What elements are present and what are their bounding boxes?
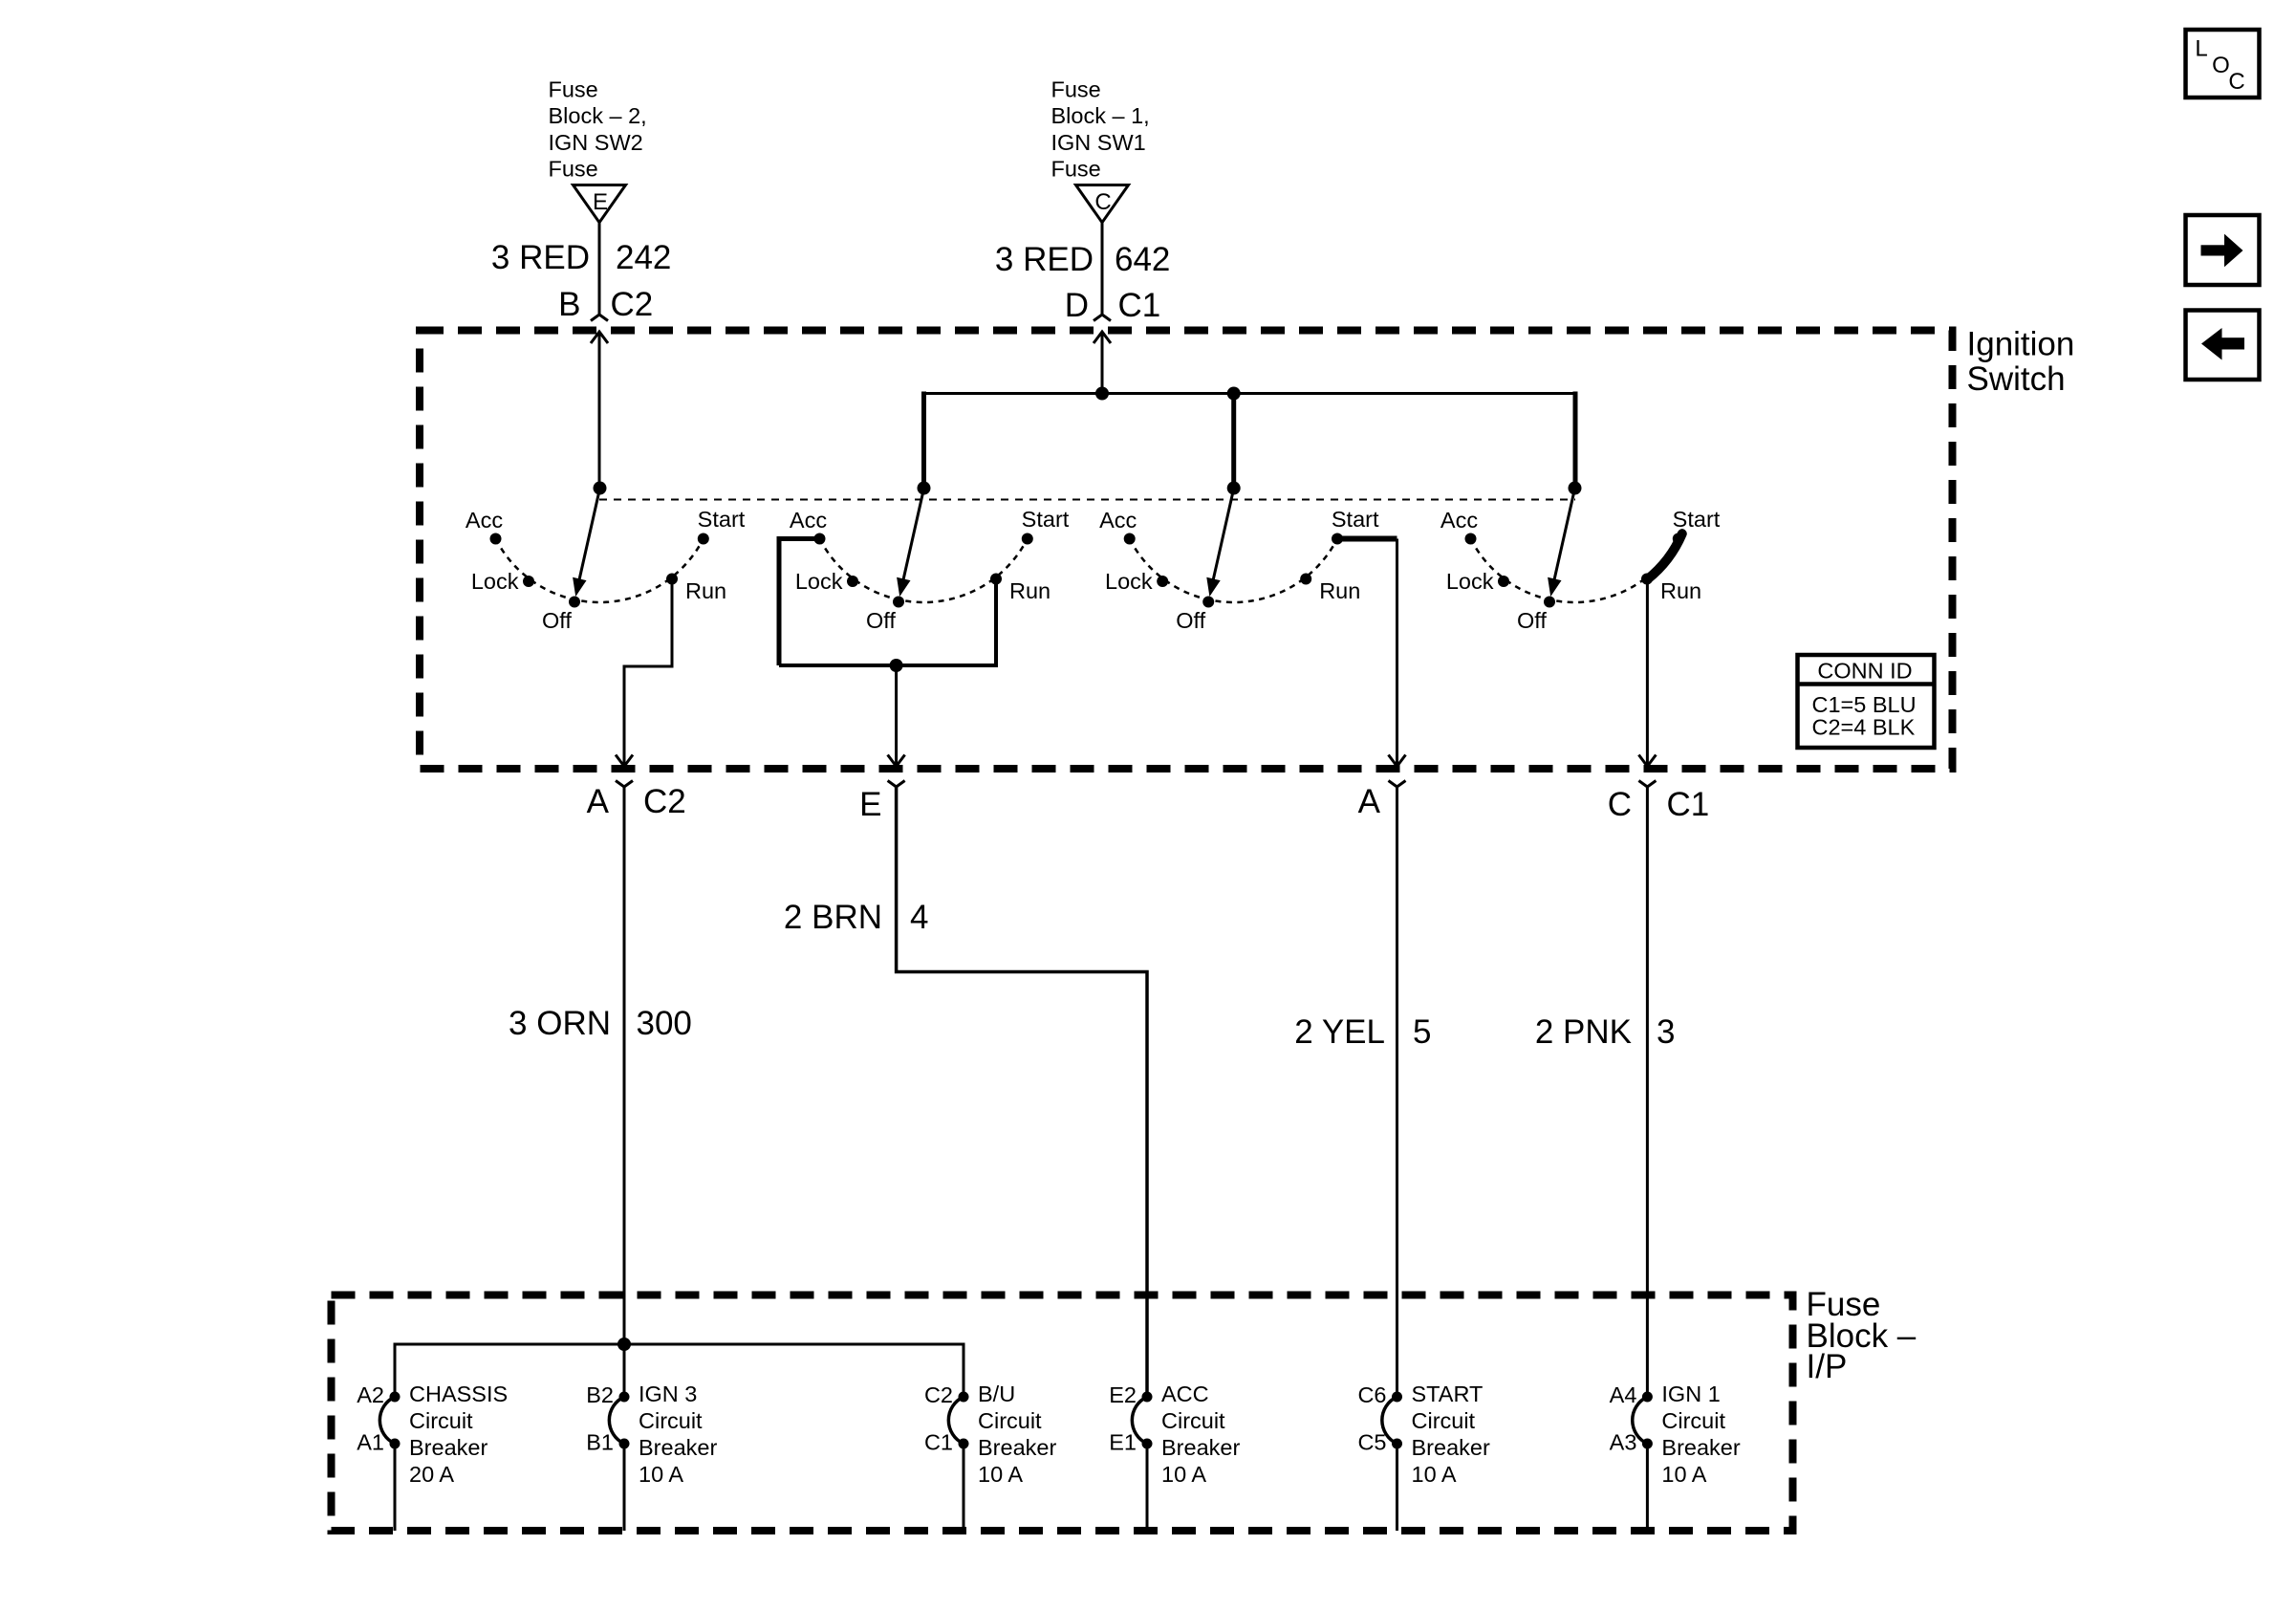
wire label 2 PNK 3 bbox=[1535, 1013, 1676, 1051]
wire from fuse E to connector B/C2 bbox=[598, 222, 601, 314]
label Ignition Switch bbox=[1967, 326, 2075, 399]
svg-text:Acc: Acc bbox=[1099, 508, 1137, 533]
svg-text:Circuit: Circuit bbox=[1661, 1408, 1725, 1433]
svg-text:A: A bbox=[587, 783, 610, 820]
svg-text:Lock: Lock bbox=[795, 569, 843, 594]
wire label 3 RED 642 bbox=[995, 241, 1171, 278]
circuit breaker ACC 10 A (E2/E1) bbox=[1109, 1382, 1240, 1531]
svg-text:C2: C2 bbox=[924, 1382, 953, 1407]
wire switch 2 junction to exit E bbox=[895, 665, 898, 765]
svg-text:ACC: ACC bbox=[1161, 1382, 1209, 1406]
svg-text:IGN SW2: IGN SW2 bbox=[549, 130, 643, 155]
svg-text:2 YEL: 2 YEL bbox=[1294, 1013, 1385, 1051]
svg-text:A1: A1 bbox=[357, 1430, 384, 1455]
wire switch 1 Run contact to exit A/C2 bbox=[624, 584, 672, 765]
svg-text:E: E bbox=[593, 189, 608, 215]
svg-text:Run: Run bbox=[1660, 578, 1701, 603]
svg-text:C1=5 BLU: C1=5 BLU bbox=[1812, 692, 1917, 717]
svg-text:642: 642 bbox=[1115, 241, 1170, 278]
svg-text:Switch: Switch bbox=[1967, 360, 2066, 398]
svg-text:IGN 1: IGN 1 bbox=[1661, 1382, 1720, 1406]
svg-text:10 A: 10 A bbox=[1161, 1462, 1206, 1487]
svg-text:Block – 2,: Block – 2, bbox=[549, 103, 647, 128]
svg-text:Circuit: Circuit bbox=[978, 1408, 1042, 1433]
wire 3 ORN 300 from A/C2 to fuse block rail bbox=[623, 786, 626, 1397]
svg-text:START: START bbox=[1412, 1382, 1484, 1406]
svg-text:A3: A3 bbox=[1610, 1430, 1637, 1455]
svg-text:10 A: 10 A bbox=[1412, 1462, 1457, 1487]
svg-text:Run: Run bbox=[1319, 578, 1360, 603]
next-page arrow box (right arrow) bbox=[2186, 215, 2260, 285]
svg-text:Breaker: Breaker bbox=[1412, 1435, 1490, 1460]
svg-text:C2=4 BLK: C2=4 BLK bbox=[1812, 715, 1916, 740]
fuse block I/P dashed box bbox=[332, 1295, 1793, 1532]
svg-text:10 A: 10 A bbox=[639, 1462, 683, 1487]
svg-text:Acc: Acc bbox=[466, 508, 503, 533]
svg-text:Off: Off bbox=[1517, 608, 1547, 633]
circuit breaker START 10 A (C6/C5) bbox=[1357, 1382, 1490, 1531]
CONN ID table bbox=[1798, 655, 1935, 748]
svg-text:Start: Start bbox=[1022, 507, 1070, 532]
svg-text:2 PNK: 2 PNK bbox=[1535, 1013, 1632, 1051]
svg-text:3 RED: 3 RED bbox=[995, 241, 1094, 278]
svg-text:L: L bbox=[2195, 36, 2207, 62]
svg-text:I/P: I/P bbox=[1807, 1348, 1848, 1385]
connector pin A at ignition switch bottom bbox=[1358, 755, 1406, 821]
svg-text:Breaker: Breaker bbox=[409, 1435, 487, 1460]
svg-text:B2: B2 bbox=[586, 1382, 614, 1407]
svg-text:Acc: Acc bbox=[790, 508, 827, 533]
wire from fuse C to connector D/C1 bbox=[1101, 222, 1104, 314]
svg-text:O: O bbox=[2212, 53, 2230, 78]
svg-text:Lock: Lock bbox=[471, 569, 519, 594]
circuit breaker IGN 1 10 A (A4/A3) bbox=[1610, 1382, 1741, 1531]
wire switch 2 rail to Run contact bbox=[779, 582, 996, 665]
svg-text:Block – 1,: Block – 1, bbox=[1051, 103, 1150, 128]
svg-text:Fuse: Fuse bbox=[549, 157, 598, 182]
svg-text:IGN 3: IGN 3 bbox=[639, 1382, 697, 1406]
wire switch 4 Run contact to exit C/C1 bbox=[1646, 579, 1649, 765]
wire 2 YEL 5 from A to START breaker bbox=[1396, 786, 1398, 1397]
connector pins D C1 at ignition switch top bbox=[1065, 287, 1161, 324]
wire label 3 RED 242 bbox=[491, 239, 672, 276]
svg-text:CONN ID: CONN ID bbox=[1817, 659, 1912, 684]
circuit breaker CHASSIS 20 A (A2/A1) bbox=[357, 1382, 508, 1531]
svg-text:Start: Start bbox=[698, 507, 746, 532]
svg-text:10 A: 10 A bbox=[1661, 1462, 1706, 1487]
svg-text:C1: C1 bbox=[1667, 786, 1710, 823]
fuse Fuse Block - 2 IGN SW2 Fuse, connector E bbox=[549, 77, 647, 223]
ignition switch dashed box bbox=[420, 331, 1953, 770]
junction dot at switch 3 drop bbox=[1227, 387, 1241, 401]
wire D/C1 entry into ignition switch to distribution node bbox=[1094, 332, 1111, 395]
circuit breaker IGN 3 10 A (B2/B1) bbox=[586, 1382, 717, 1531]
svg-text:3 RED: 3 RED bbox=[491, 239, 590, 276]
svg-text:Fuse: Fuse bbox=[1051, 77, 1101, 102]
svg-text:D: D bbox=[1065, 287, 1089, 324]
svg-text:4: 4 bbox=[910, 899, 928, 936]
previous-page arrow box (left arrow) bbox=[2186, 311, 2260, 381]
svg-text:Breaker: Breaker bbox=[978, 1435, 1056, 1460]
wire label 2 YEL 5 bbox=[1294, 1013, 1431, 1051]
connector pin E at ignition switch bottom bbox=[859, 755, 904, 824]
distribution wire across ignition switch bbox=[924, 392, 1576, 490]
svg-text:Fuse: Fuse bbox=[549, 77, 598, 102]
fuse Fuse Block - 1 IGN SW1 Fuse, connector C bbox=[1051, 77, 1150, 223]
svg-text:C1: C1 bbox=[1118, 287, 1161, 324]
svg-text:IGN SW1: IGN SW1 bbox=[1051, 130, 1146, 155]
connector pins B C2 at ignition switch top bbox=[558, 286, 653, 323]
wire label 3 ORN 300 bbox=[509, 1005, 692, 1042]
svg-text:Run: Run bbox=[1009, 578, 1051, 603]
svg-text:Off: Off bbox=[1176, 608, 1205, 633]
svg-text:A: A bbox=[1358, 783, 1381, 820]
connector pins C C1 at ignition switch bottom bbox=[1608, 755, 1710, 824]
wire switch 3 Start contact stub (thick) bbox=[1337, 536, 1397, 542]
svg-text:Run: Run bbox=[685, 578, 726, 603]
svg-text:Breaker: Breaker bbox=[1161, 1435, 1240, 1460]
svg-text:Circuit: Circuit bbox=[1412, 1408, 1476, 1433]
wire label 2 BRN 4 bbox=[784, 899, 929, 936]
svg-text:C: C bbox=[2228, 69, 2244, 95]
ignition switch wafer 2 bbox=[790, 482, 1070, 634]
svg-text:10 A: 10 A bbox=[978, 1462, 1023, 1487]
svg-text:Circuit: Circuit bbox=[639, 1408, 703, 1433]
junction dot switch 2 exit E bbox=[890, 659, 903, 672]
svg-text:C: C bbox=[1094, 189, 1111, 215]
svg-text:B/U: B/U bbox=[978, 1382, 1015, 1406]
svg-text:A4: A4 bbox=[1610, 1382, 1637, 1407]
svg-text:Acc: Acc bbox=[1440, 508, 1478, 533]
svg-text:A2: A2 bbox=[357, 1382, 384, 1407]
svg-text:Circuit: Circuit bbox=[1161, 1408, 1225, 1433]
junction dot at D entry on distribution wire bbox=[1095, 387, 1109, 401]
svg-text:Start: Start bbox=[1332, 507, 1379, 532]
wire 2 BRN 4 from E to ACC breaker bbox=[897, 786, 1147, 1397]
LOC reference box bbox=[2186, 30, 2260, 98]
svg-text:C: C bbox=[1608, 786, 1632, 823]
svg-text:242: 242 bbox=[616, 239, 671, 276]
svg-text:B1: B1 bbox=[586, 1430, 614, 1455]
ignition switch wafer 4 bbox=[1440, 482, 1721, 634]
svg-text:C6: C6 bbox=[1357, 1382, 1386, 1407]
svg-text:C1: C1 bbox=[924, 1430, 953, 1455]
svg-text:3: 3 bbox=[1657, 1013, 1675, 1051]
dashed pivot line linking switch wipers bbox=[599, 499, 1575, 501]
fuse block feed rail bbox=[395, 1344, 964, 1397]
svg-text:C5: C5 bbox=[1357, 1430, 1386, 1455]
svg-text:300: 300 bbox=[637, 1005, 692, 1042]
junction dot rail to IGN 3 breaker bbox=[617, 1338, 631, 1351]
switch 4 engaged wiper contact Run-Start (thick arc) bbox=[1647, 533, 1681, 579]
wire 2 PNK 3 from C/C1 to IGN 1 breaker bbox=[1646, 786, 1649, 1397]
svg-text:20 A: 20 A bbox=[409, 1462, 454, 1487]
wire switch 3 stub down to exit A bbox=[1396, 539, 1398, 766]
svg-text:C2: C2 bbox=[643, 783, 686, 820]
svg-text:2 BRN: 2 BRN bbox=[784, 899, 882, 936]
svg-text:Fuse: Fuse bbox=[1051, 157, 1101, 182]
svg-text:Breaker: Breaker bbox=[639, 1435, 717, 1460]
connector pins A C2 at ignition switch bottom bbox=[587, 755, 686, 821]
circuit breaker B/U 10 A (C2/C1) bbox=[924, 1382, 1057, 1531]
svg-text:Start: Start bbox=[1673, 507, 1721, 532]
svg-text:5: 5 bbox=[1413, 1013, 1431, 1051]
svg-text:Breaker: Breaker bbox=[1661, 1435, 1740, 1460]
svg-text:Ignition: Ignition bbox=[1967, 326, 2075, 363]
svg-text:E2: E2 bbox=[1109, 1382, 1137, 1407]
svg-text:CHASSIS: CHASSIS bbox=[409, 1382, 508, 1406]
svg-text:Circuit: Circuit bbox=[409, 1408, 473, 1433]
svg-text:C2: C2 bbox=[611, 286, 654, 323]
svg-text:E: E bbox=[859, 786, 881, 823]
svg-text:E1: E1 bbox=[1109, 1430, 1137, 1455]
svg-text:B: B bbox=[558, 286, 580, 323]
wire B/C2 entry into ignition switch to switch 1 pivot bbox=[591, 332, 608, 489]
label Fuse Block - I/P bbox=[1807, 1286, 1917, 1385]
svg-text:Lock: Lock bbox=[1446, 569, 1494, 594]
ignition switch wafer 3 bbox=[1099, 482, 1379, 634]
svg-text:Off: Off bbox=[866, 608, 896, 633]
ignition switch wafer 1 (Acc Lock Off Run Start) bbox=[466, 482, 746, 634]
svg-text:Off: Off bbox=[542, 608, 572, 633]
svg-text:Lock: Lock bbox=[1105, 569, 1153, 594]
wire switch 2 Acc contact stub (thick) bbox=[779, 539, 820, 666]
svg-text:3 ORN: 3 ORN bbox=[509, 1005, 611, 1042]
